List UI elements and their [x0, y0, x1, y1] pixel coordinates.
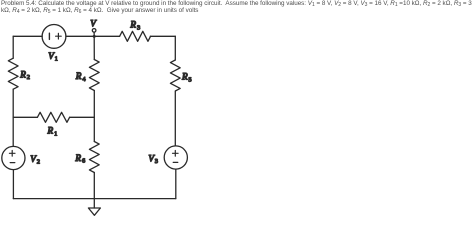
- svg-text:3: 3: [137, 24, 140, 31]
- label R4: [75, 71, 87, 83]
- svg-text:R: R: [19, 69, 26, 79]
- svg-text:R: R: [181, 72, 188, 82]
- svg-text:6: 6: [82, 158, 85, 165]
- wire R1 left lead: [13, 116, 37, 118]
- svg-text:4: 4: [82, 76, 86, 83]
- svg-text:2: 2: [37, 159, 40, 166]
- label V2: [30, 154, 40, 166]
- resistor R4: [89, 60, 99, 91]
- svg-text:R: R: [75, 71, 82, 81]
- wire right rail middle: [174, 92, 176, 146]
- resistor R2: [8, 58, 18, 89]
- svg-text:R: R: [129, 20, 136, 30]
- svg-text:R: R: [47, 126, 54, 136]
- label R1: [47, 126, 58, 138]
- voltage source V1: [42, 25, 66, 49]
- wire middle rail upper (node V to R4): [93, 36, 95, 59]
- wire right rail lower: [175, 169, 177, 199]
- wire left rail upper: [12, 36, 14, 58]
- label R5: [181, 72, 192, 84]
- label R6: [74, 153, 85, 165]
- ground: [88, 199, 100, 216]
- wire R1 right lead: [70, 116, 95, 118]
- node V terminal: [92, 29, 96, 38]
- wire right rail upper: [174, 36, 176, 60]
- problem statement text: [1, 1, 474, 14]
- label V (node): [90, 19, 97, 29]
- wire middle rail lower (R6 to bottom): [93, 173, 95, 199]
- svg-text:R: R: [74, 153, 81, 163]
- svg-text:2: 2: [27, 74, 30, 81]
- wire top-left horizontal (corner to V1): [13, 35, 42, 37]
- svg-text:3: 3: [155, 158, 158, 165]
- voltage source V2: [2, 146, 25, 169]
- svg-text:5: 5: [188, 76, 191, 83]
- resistor R5: [170, 60, 180, 91]
- wire middle rail mid (R4 to R6): [93, 91, 95, 142]
- resistor R1: [37, 112, 69, 122]
- svg-text:V: V: [90, 19, 97, 29]
- svg-text:1: 1: [54, 130, 57, 137]
- wire bottom horizontal: [13, 198, 175, 200]
- wire top-right horizontal (R3 to corner): [150, 35, 175, 37]
- label R3: [129, 20, 140, 32]
- label V3: [148, 153, 158, 165]
- svg-text:1: 1: [55, 56, 58, 63]
- resistor R3: [120, 31, 151, 41]
- wire left rail lower: [12, 170, 14, 199]
- label R2: [19, 69, 30, 81]
- voltage source V3: [164, 146, 187, 169]
- resistor R6: [89, 142, 99, 173]
- wire left rail middle: [12, 89, 14, 146]
- label V1: [48, 51, 58, 63]
- wire top-middle horizontal (V1 to R3): [66, 35, 120, 37]
